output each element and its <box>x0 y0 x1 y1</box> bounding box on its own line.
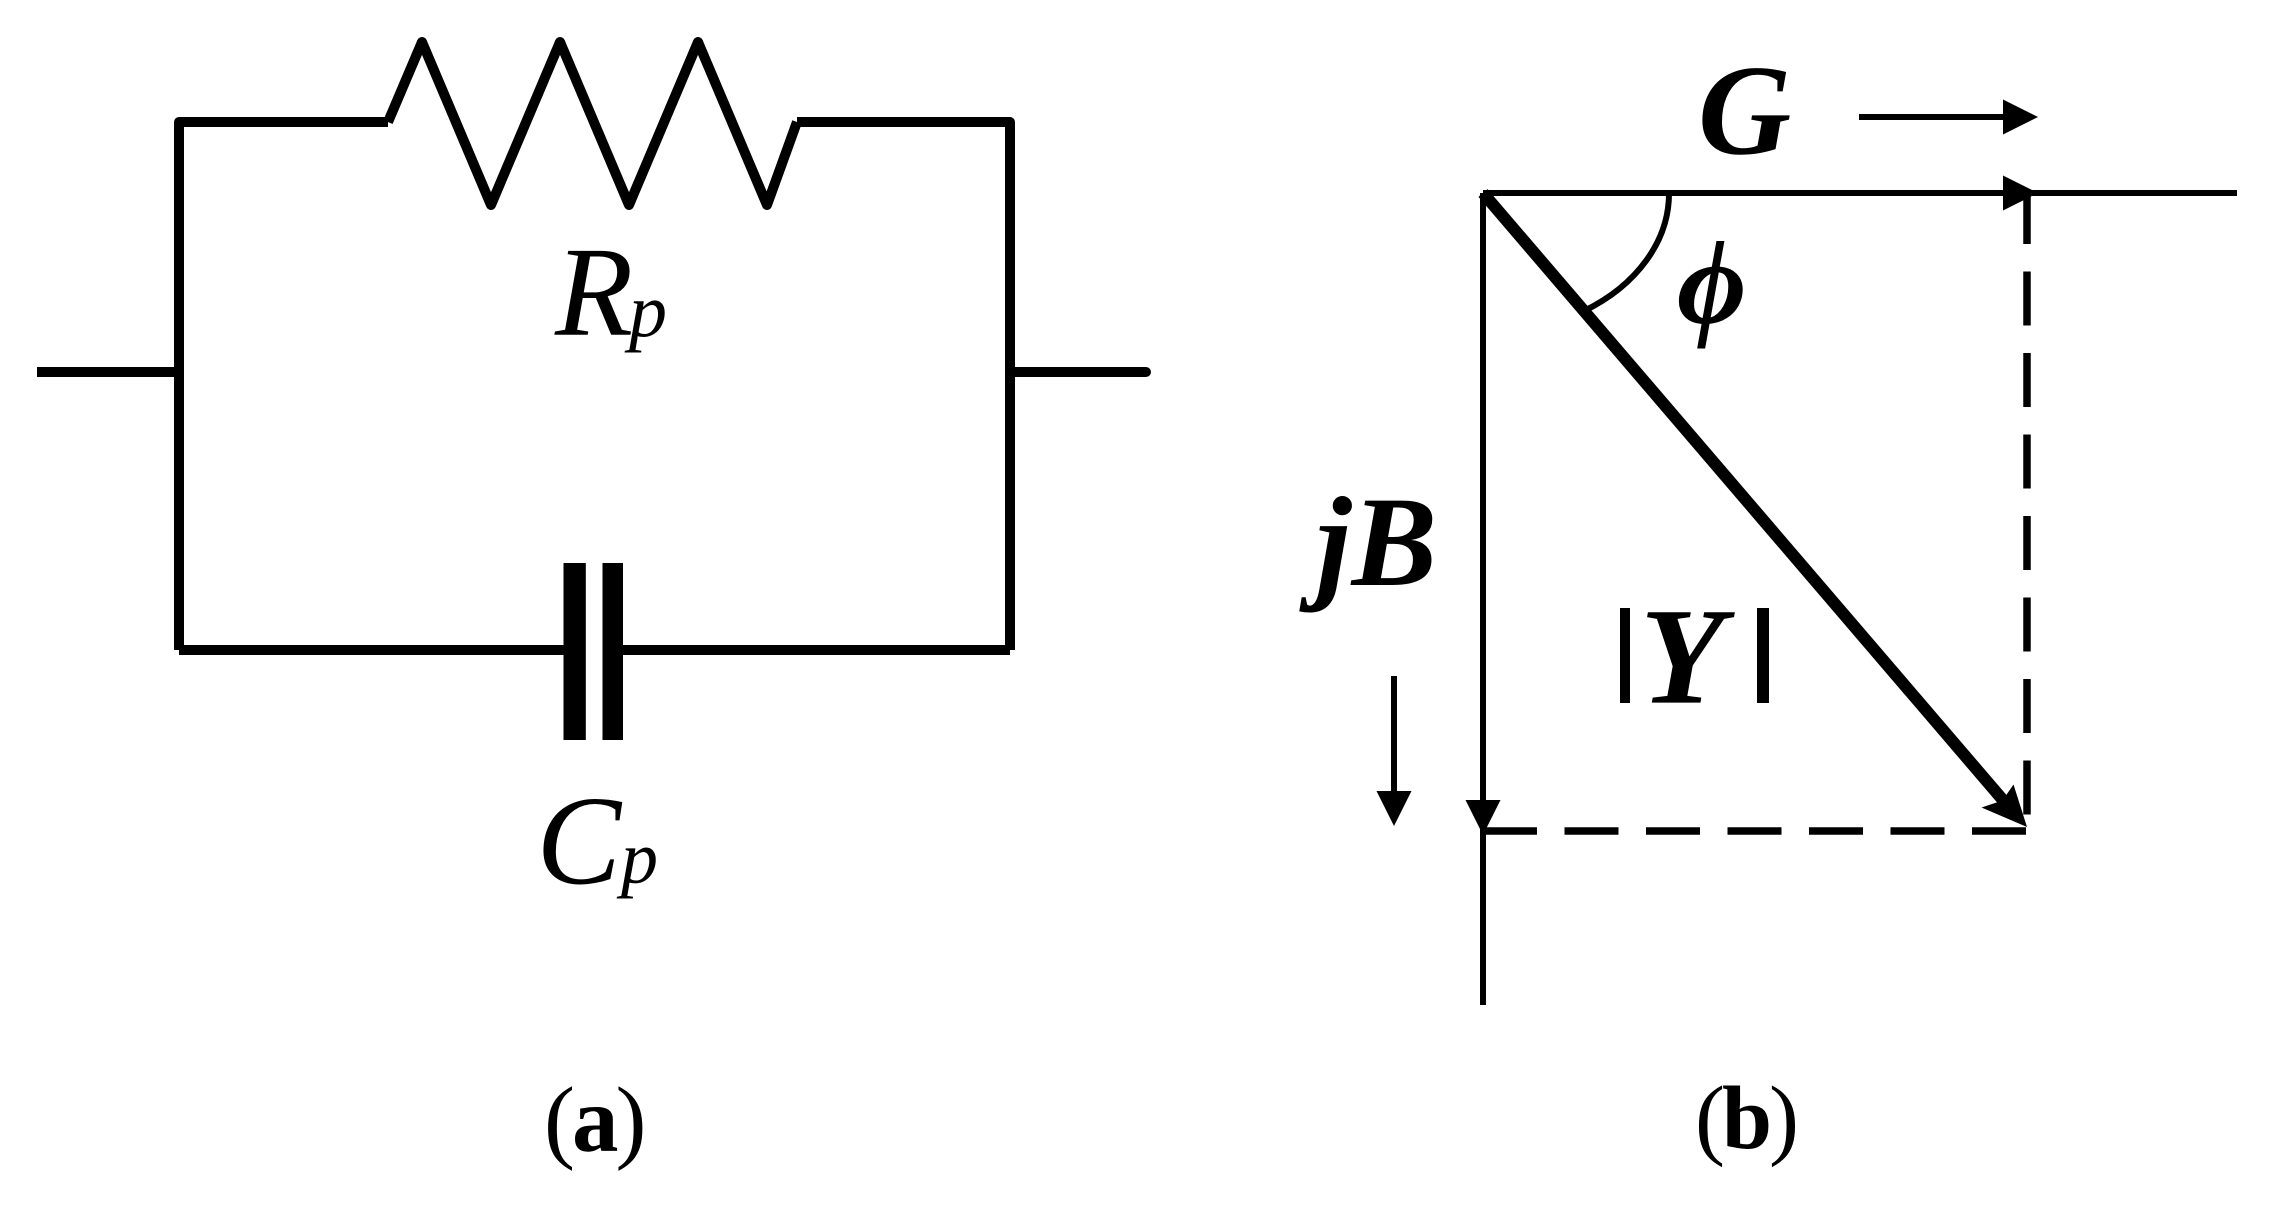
svg-text:ϕ: ϕ <box>1677 216 1746 349</box>
jB direction arrow <box>1377 676 1412 826</box>
svg-text:G: G <box>1698 39 1791 182</box>
G direction arrow <box>1859 100 2038 135</box>
wire left branch and top-left segment <box>179 122 388 650</box>
capacitor Cp right plate <box>603 563 624 740</box>
admittance vector Y arrowhead <box>1982 785 2028 828</box>
svg-text:jB: jB <box>1299 471 1437 613</box>
wire right lead of circuit (a) <box>1010 367 1146 377</box>
wire bottom-left segment <box>179 645 566 655</box>
svg-text:(b): (b) <box>1695 1069 1796 1168</box>
svg-text:p: p <box>616 818 658 900</box>
wire top-right segment and right branch <box>797 122 1010 650</box>
label Rp <box>554 221 667 363</box>
jB axis line <box>1480 193 1486 1005</box>
svg-text:Y: Y <box>1640 580 1735 733</box>
resistor Rp zigzag <box>388 42 797 205</box>
G axis arrowhead <box>2003 176 2038 211</box>
svg-text:C: C <box>536 772 622 912</box>
svg-text:p: p <box>624 269 667 353</box>
G axis line <box>1483 190 2237 196</box>
admittance vector Y shaft <box>1483 193 2010 808</box>
label |Y| left bar <box>1620 608 1630 703</box>
wire left lead of circuit (a) <box>37 367 179 377</box>
jB axis arrowhead <box>1466 800 1501 835</box>
dashed projection line vertical <box>2023 190 2031 831</box>
label |Y| right bar <box>1757 608 1769 703</box>
capacitor Cp left plate <box>564 563 586 740</box>
svg-text:(a): (a) <box>544 1069 643 1172</box>
wire bottom-right segment <box>622 645 1010 655</box>
label Cp <box>536 772 658 912</box>
angle arc phi <box>1584 193 1669 311</box>
dashed projection line horizontal <box>1483 827 2029 835</box>
svg-text:R: R <box>554 221 633 363</box>
